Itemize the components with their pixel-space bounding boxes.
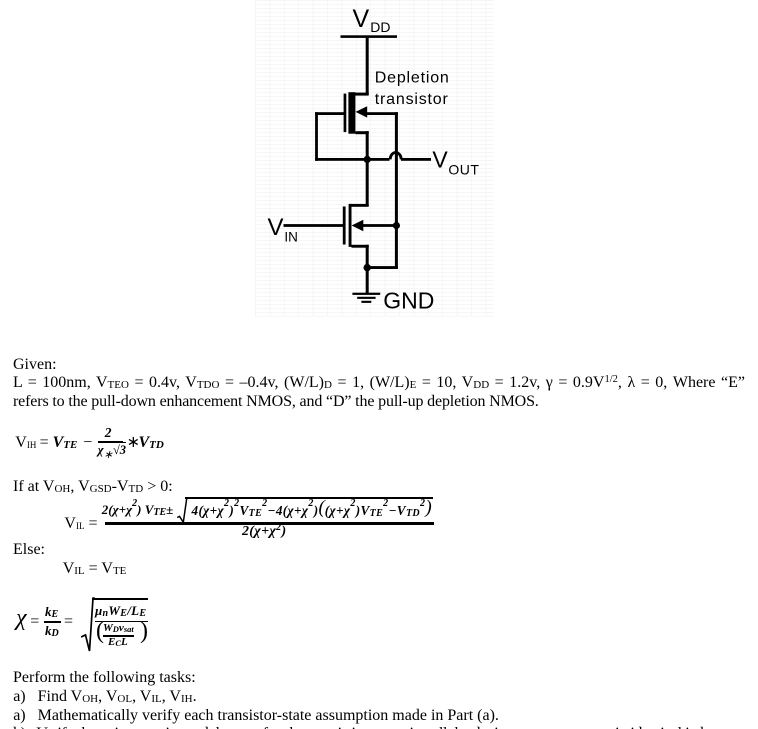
label Depletion transistor bbox=[375, 70, 450, 109]
radical overline bbox=[185, 497, 433, 499]
wire depletion bulk to right rail bbox=[362, 112, 398, 115]
chi formula bbox=[0, 0, 1, 1]
numerator bbox=[102, 503, 174, 519]
VIL big formula bbox=[0, 0, 1, 1]
label VIN bbox=[268, 214, 298, 244]
svg-text:V: V bbox=[353, 5, 370, 33]
enhancement transistor E: drain stub bbox=[350, 204, 369, 207]
svg-text:OUT: OUT bbox=[448, 162, 479, 178]
wire depletion gate feedback: gate to left bbox=[315, 112, 345, 115]
svg-text:V: V bbox=[432, 147, 448, 173]
wire hop over right rail bbox=[390, 152, 401, 159]
wire VIN lead to gate bbox=[284, 224, 345, 227]
wire source node to ground bbox=[366, 268, 369, 294]
svg-text:Depletion: Depletion bbox=[375, 70, 450, 87]
radical hook bbox=[176, 497, 190, 523]
depletion transistor D: drain stub bbox=[353, 93, 369, 96]
under radical bbox=[192, 503, 432, 520]
wire right rail (depletion bulk down to source loop) bbox=[395, 112, 398, 269]
svg-text:GND: GND bbox=[383, 288, 434, 314]
depletion transistor D: source/bulk arrow bbox=[356, 106, 368, 117]
wire enhancement source stub bbox=[352, 245, 369, 269]
denominator bbox=[242, 525, 286, 540]
wire hop to VOUT bbox=[401, 158, 431, 161]
junction dot on right rail bbox=[393, 222, 400, 229]
power rail VDD (bar) bbox=[341, 35, 398, 38]
svg-text:V: V bbox=[268, 214, 284, 241]
svg-text:IN: IN bbox=[284, 229, 298, 244]
faint pasted-image grid background (decorative) bbox=[255, 0, 494, 317]
wire gate feedback left vertical bbox=[315, 112, 318, 161]
wire right rail bottom turn to source node bbox=[367, 266, 398, 269]
label VDD bbox=[353, 5, 391, 35]
wire depletion source stub bbox=[355, 131, 368, 161]
node output junction dot bbox=[364, 156, 371, 163]
enhancement transistor E: gate line bbox=[343, 207, 346, 245]
wire gate feedback bottom horizontal to output node bbox=[315, 158, 367, 161]
wire enhancement bulk to right rail bbox=[358, 224, 398, 227]
depletion transistor D: gate line bbox=[344, 94, 347, 133]
VIH formula bbox=[0, 0, 1, 1]
wire VDD bar to depletion drain bbox=[366, 38, 369, 95]
wire output node to hop bbox=[367, 158, 390, 161]
svg-text:DD: DD bbox=[370, 19, 390, 35]
enhancement transistor E: channel line bbox=[349, 204, 352, 247]
wire output node down to enhancement drain bbox=[366, 159, 369, 206]
ground symbol bbox=[352, 293, 380, 303]
enhancement transistor E: source/bulk arrow bbox=[352, 220, 364, 231]
main fraction bar bbox=[105, 522, 434, 524]
radical hook big bbox=[81, 597, 95, 653]
depletion transistor D: thick channel bar bbox=[348, 92, 355, 134]
svg-text:transistor: transistor bbox=[375, 91, 449, 108]
node source junction dot bbox=[364, 264, 371, 271]
label VOUT bbox=[432, 147, 479, 178]
